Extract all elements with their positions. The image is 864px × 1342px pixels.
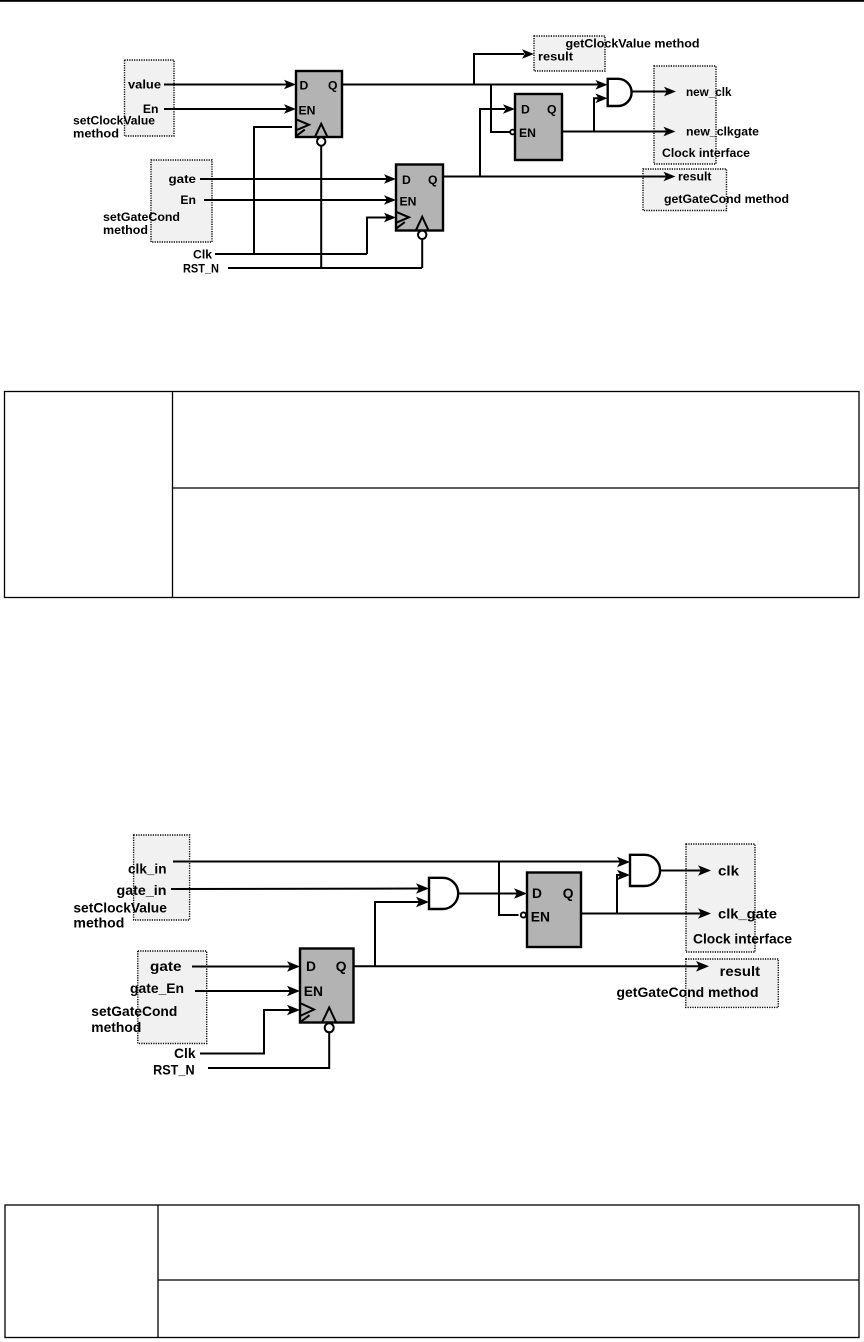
svg-text:gate_En: gate_En (130, 981, 184, 996)
svg-text:EN: EN (519, 126, 536, 140)
Clock interface box (654, 66, 716, 164)
wire Clk to U4 clock (200, 1005, 300, 1054)
svg-text:EN: EN (400, 195, 417, 209)
wire En to U2.EN (204, 199, 387, 201)
wire A1 out to new_clk (632, 91, 668, 93)
wire RST_N net (228, 146, 422, 268)
svg-text:gate_in: gate_in (117, 883, 167, 898)
wire A3 out to clk (660, 870, 702, 872)
svg-text:Clock interface: Clock interface (693, 931, 792, 946)
U2 clock input symbol (396, 212, 409, 229)
U4 clock input symbol (300, 1003, 314, 1022)
table 1 outer frame (5, 392, 860, 598)
svg-text:result: result (720, 964, 761, 979)
and-gate A3 (630, 855, 660, 886)
svg-text:gate: gate (169, 172, 197, 186)
svg-text:new_clk: new_clk (686, 85, 732, 99)
wire gate to U4.D (192, 966, 290, 968)
table 2 row divider (158, 1279, 859, 1281)
U4 reset triangle (322, 1008, 336, 1023)
wire branch to and-gate A3 bottom input (617, 870, 630, 914)
page top rule (0, 0, 864, 2)
svg-text:EN: EN (304, 984, 323, 999)
svg-text:D: D (300, 79, 309, 93)
svg-text:clk_gate: clk_gate (718, 906, 777, 921)
port box setClockValue method (clk_in/gate_in) (134, 835, 190, 920)
svg-text:Clock interface: Clock interface (662, 146, 750, 160)
result box getClockValue method (534, 36, 605, 71)
wire U3 out to new_clkgate (562, 131, 667, 133)
svg-text:Q: Q (428, 173, 437, 187)
svg-text:RST_N: RST_N (183, 262, 219, 276)
table 2 column divider (157, 1205, 159, 1338)
wire branch U4.Q to A2 bottom input (375, 897, 429, 967)
svg-text:getGateCond method: getGateCond method (617, 985, 759, 1000)
latch U5 (527, 873, 581, 948)
svg-text:D: D (521, 103, 530, 117)
wire branch clk_in to U5.EN (499, 862, 519, 916)
svg-text:method: method (73, 127, 119, 141)
wire En to U1.EN (164, 108, 287, 110)
wire Clk net (215, 127, 396, 254)
svg-text:EN: EN (531, 910, 550, 925)
port box setClockValue method (value/En inputs) (125, 60, 175, 136)
Clock interface box (2) (686, 844, 755, 952)
svg-text:setGateCond: setGateCond (91, 1004, 177, 1019)
svg-text:RST_N: RST_N (153, 1063, 195, 1078)
port box setGateCond method (gate/En inputs) (151, 160, 212, 242)
wire U4.Q to result (354, 965, 700, 967)
flip-flop U1 (296, 71, 342, 137)
svg-text:method: method (91, 1020, 141, 1035)
U1 reset triangle (315, 124, 327, 137)
svg-text:clk_in: clk_in (128, 861, 167, 876)
flip-flop U4 (300, 949, 354, 1023)
svg-text:gate: gate (150, 959, 182, 974)
svg-text:result: result (538, 49, 573, 63)
U1 clock input symbol (296, 119, 309, 136)
svg-text:setGateCond: setGateCond (103, 210, 180, 224)
svg-text:clk: clk (718, 863, 739, 878)
table 2 outer frame (5, 1205, 859, 1338)
svg-text:method: method (103, 223, 148, 237)
wire U2.Q to result (getGateCond) (443, 176, 667, 178)
svg-text:EN: EN (299, 103, 316, 117)
svg-text:D: D (306, 959, 316, 974)
svg-text:result: result (678, 169, 712, 183)
result box getGateCond method (643, 169, 727, 211)
svg-text:getClockValue method: getClockValue method (566, 36, 700, 50)
svg-text:D: D (402, 173, 411, 187)
wire gate_in to and-gate A2 top input (171, 888, 419, 891)
svg-text:method: method (73, 916, 124, 931)
and-gate A1 (608, 79, 632, 106)
svg-text:Q: Q (336, 959, 347, 974)
svg-text:setClockValue: setClockValue (73, 900, 167, 915)
svg-text:value: value (128, 78, 161, 92)
latch U3 (515, 94, 562, 160)
wire U5 out to clk_gate (581, 913, 701, 915)
wire A2 out to U5.D (458, 893, 518, 895)
table 1 row divider (173, 487, 860, 489)
svg-text:new_clkgate: new_clkgate (686, 125, 759, 139)
wire branch to result (getClockValue) (474, 49, 534, 84)
table 1 column divider (172, 392, 174, 598)
U2 reset triangle (416, 217, 428, 230)
wire clk_in to and-gate A3 top input (173, 861, 620, 863)
svg-text:D: D (532, 886, 542, 901)
svg-text:Q: Q (328, 79, 337, 93)
svg-text:En: En (180, 193, 196, 207)
wire gate to U2.D (200, 178, 387, 180)
U2 reset bubble (418, 231, 426, 239)
wire gate_En to U4.EN (195, 990, 290, 992)
wire RST_N to U4 reset (208, 1033, 329, 1068)
wire branch to U3.EN (491, 85, 510, 133)
U4 reset bubble (325, 1023, 334, 1032)
svg-text:Q: Q (563, 886, 574, 901)
svg-text:Q: Q (547, 103, 556, 117)
U5 EN bubble (521, 912, 526, 917)
wire U1.Q to and-gate A1 top input (342, 84, 599, 86)
U3 EN bubble (510, 130, 515, 135)
wire value to U1.D (164, 84, 287, 86)
wire branch to and-gate A1 bottom input (594, 94, 608, 132)
port box setGateCond method (gate/gate_En) (138, 951, 207, 1044)
svg-text:setClockValue: setClockValue (73, 114, 155, 128)
svg-text:Clk: Clk (193, 248, 212, 262)
svg-text:Clk: Clk (174, 1046, 196, 1061)
and-gate A2 (429, 878, 458, 909)
U1 reset bubble (317, 137, 325, 145)
result box getGateCond method (2) (686, 959, 779, 1007)
wire U2.Q branch to U3.D (480, 104, 515, 176)
svg-text:getGateCond method: getGateCond method (664, 192, 789, 206)
flip-flop U2 (396, 165, 443, 231)
